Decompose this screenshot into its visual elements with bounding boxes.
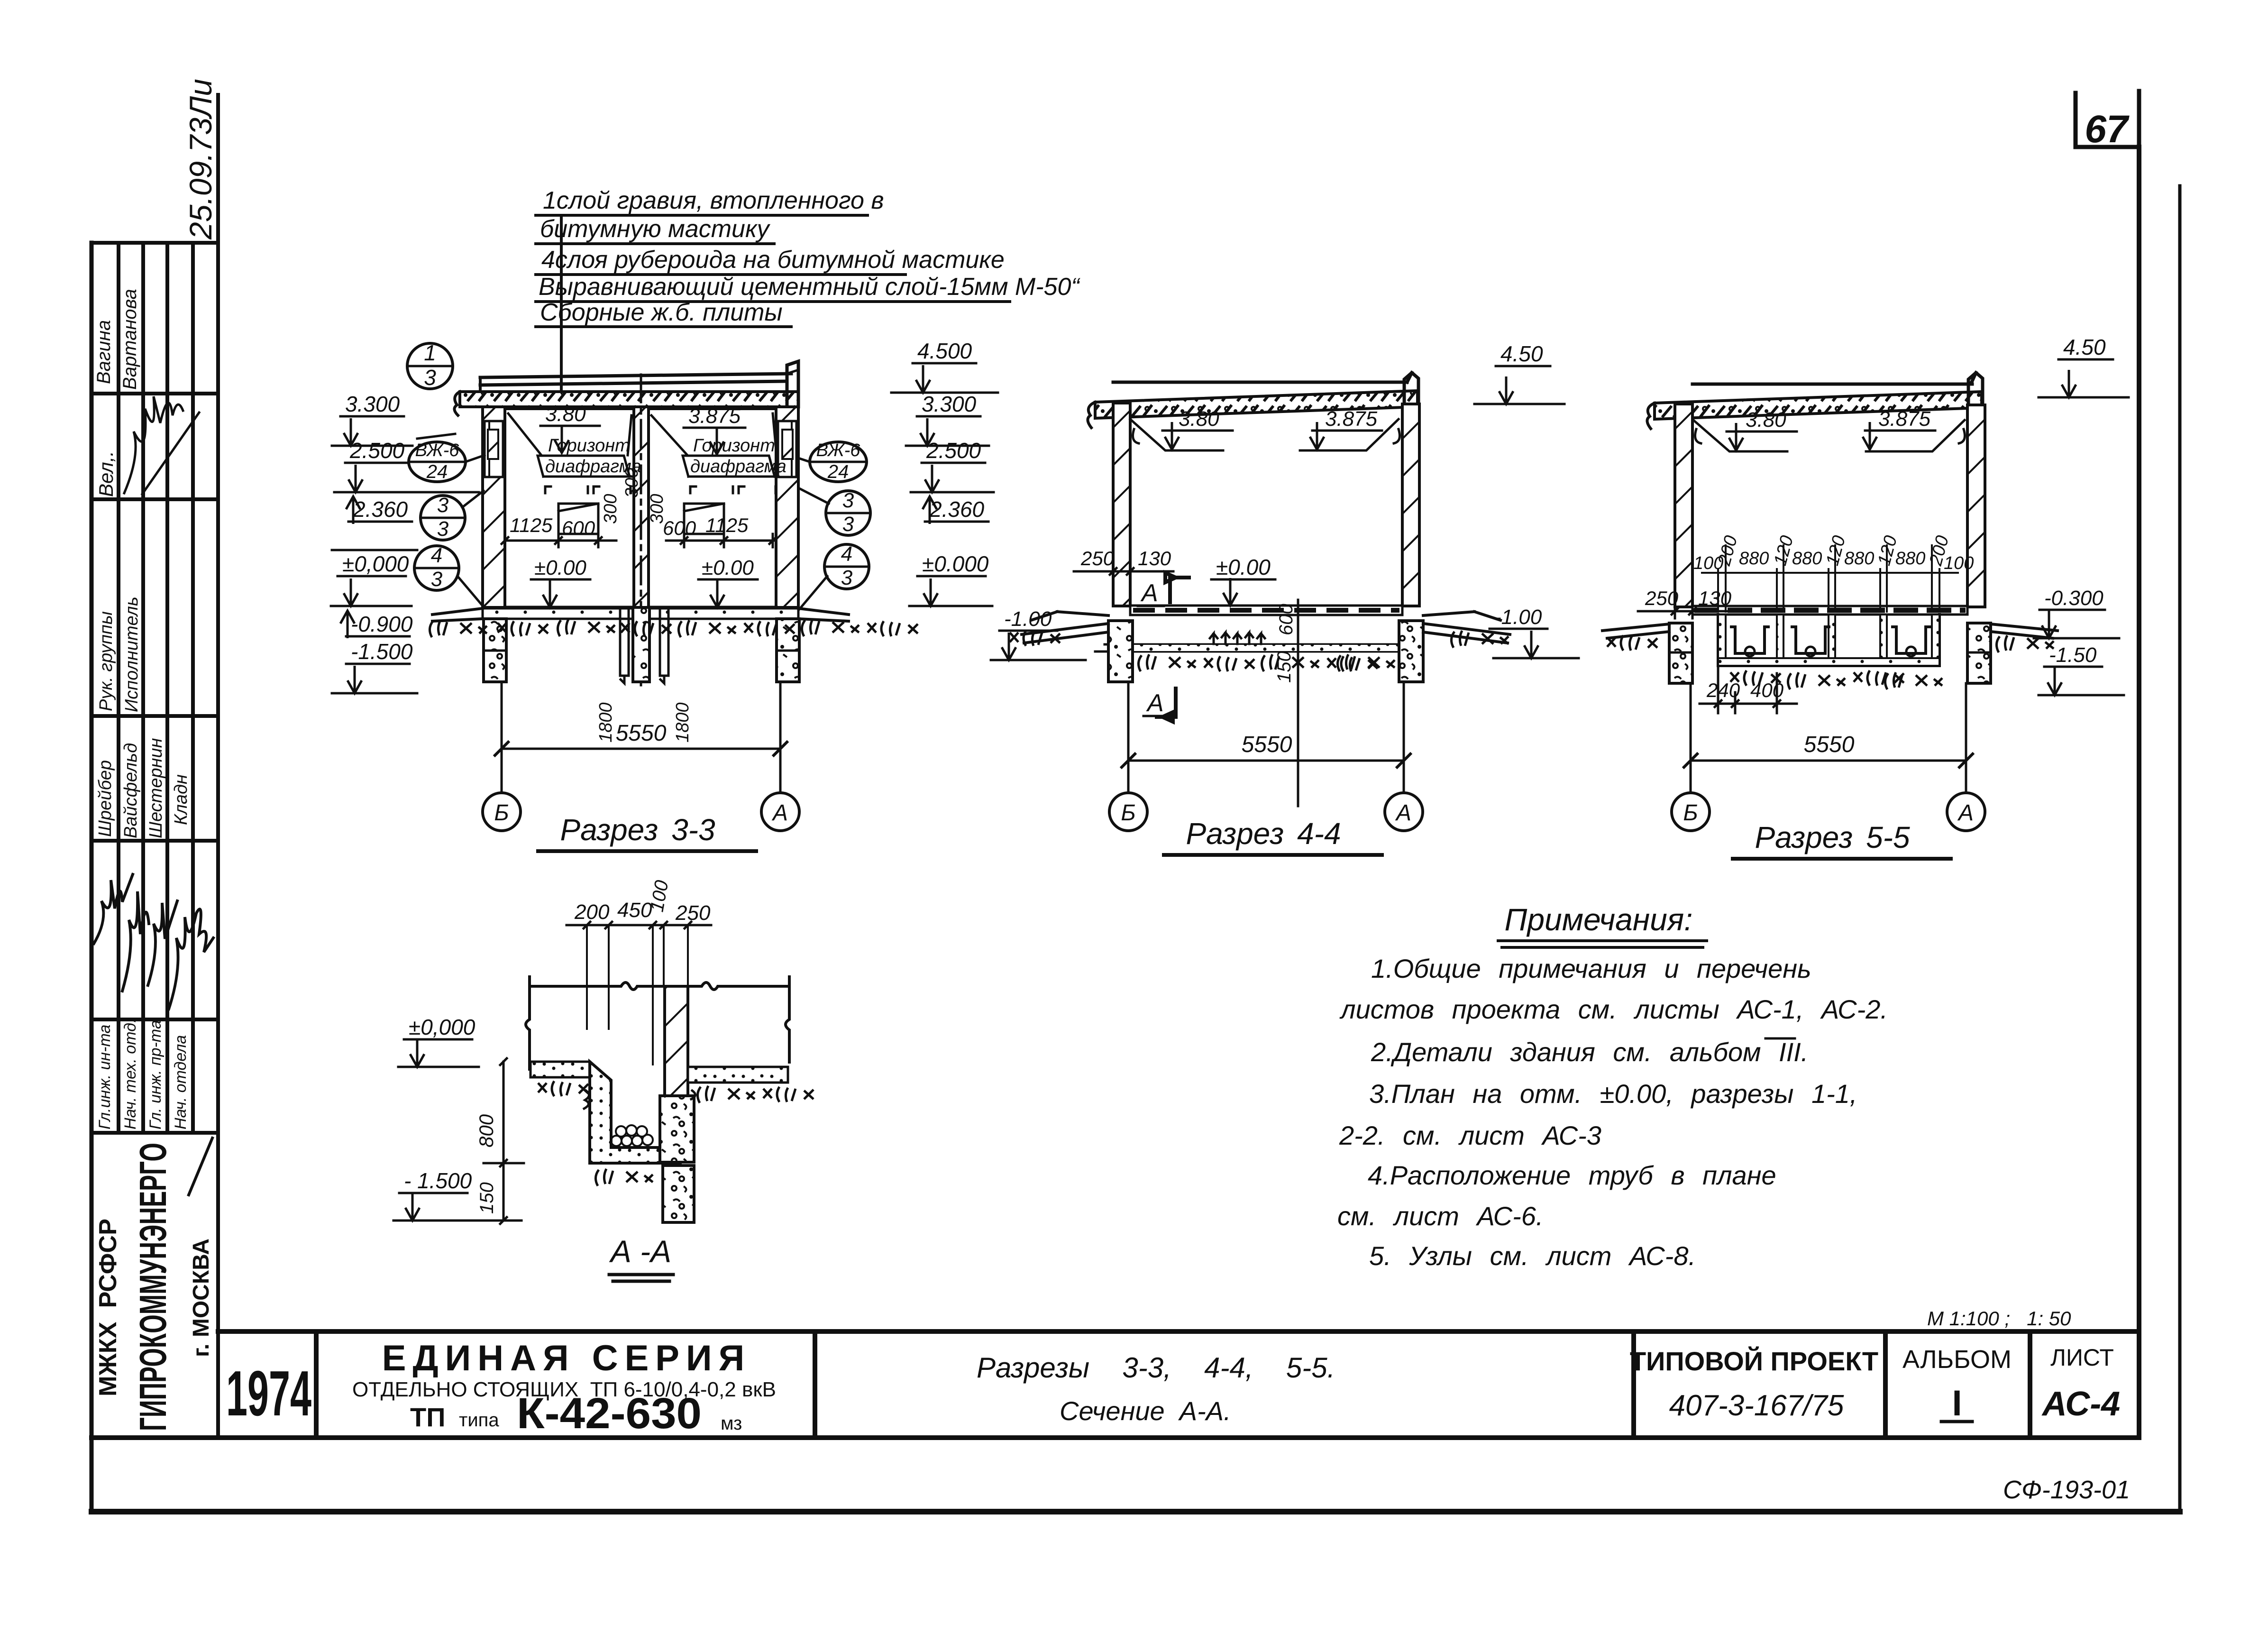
svg-text:4.500: 4.500 <box>917 339 972 363</box>
svg-text:250: 250 <box>1645 587 1679 609</box>
top dims 200 450 100 250 <box>567 879 711 1065</box>
svg-text:2.Детали здания см. альбом III: 2.Детали здания см. альбом III. <box>1371 1037 1808 1067</box>
callout circle 4/3 left <box>414 544 484 607</box>
album III overline <box>1765 1037 1795 1040</box>
svg-text:Разрезы 3-3, 4-4, 5-5.: Разрезы 3-3, 4-4, 5-5. <box>977 1352 1335 1384</box>
svg-text:4.Расположение труб в плане: 4.Расположение труб в плане <box>1368 1160 1776 1190</box>
svg-text:300: 300 <box>647 494 667 524</box>
svg-text:1125: 1125 <box>510 514 553 536</box>
svg-text:3: 3 <box>431 568 443 591</box>
hatched wall A-A <box>665 986 688 1096</box>
svg-text:листов проекта см. листы АС-1,: листов проекта см. листы АС-1, АС-2. <box>1339 994 1888 1024</box>
svg-text:407-3-167/75: 407-3-167/75 <box>1669 1389 1844 1422</box>
ground hatch band <box>430 619 918 637</box>
svg-text:5550: 5550 <box>1242 732 1292 757</box>
left wall hatched <box>1113 403 1130 606</box>
level -1.00 left <box>991 607 1086 660</box>
floor slab band <box>483 608 798 619</box>
svg-text:Шрейбер: Шрейбер <box>95 760 115 837</box>
left footing 5-5 <box>1669 623 1692 683</box>
svg-text:Б: Б <box>1683 800 1698 826</box>
stamp row: signatures scrawls <box>94 874 213 1009</box>
svg-text:±0,000: ±0,000 <box>409 1015 476 1039</box>
svg-text:2-2. см. лист АС-3: 2-2. см. лист АС-3 <box>1339 1120 1601 1150</box>
wall dim 250 130 5-5 <box>1638 587 1732 618</box>
svg-text:4.50: 4.50 <box>1500 341 1543 366</box>
ground hatch band 4-4 <box>1010 631 1509 671</box>
svg-text:880: 880 <box>1844 549 1874 569</box>
svg-text:-1.00: -1.00 <box>1004 607 1052 631</box>
left wall hatched <box>1675 404 1692 607</box>
svg-text:130: 130 <box>1698 587 1732 609</box>
svg-text:150: 150 <box>1274 651 1295 683</box>
svg-text:Б: Б <box>494 800 509 826</box>
svg-text:А: А <box>1395 800 1411 826</box>
roof top line <box>1692 383 1972 386</box>
level 0.000 A-A <box>398 1015 479 1067</box>
svg-text:130: 130 <box>1138 547 1171 569</box>
roof top line <box>480 374 791 385</box>
svg-text:3.80: 3.80 <box>1746 408 1786 431</box>
roof layers underlines and leader <box>536 215 1010 409</box>
interior dims 600 1125 right <box>663 504 776 547</box>
level -1.00 right <box>1490 606 1579 658</box>
svg-text:1: 1 <box>424 340 436 365</box>
roof left drip <box>454 377 480 415</box>
roof layers annotation text <box>539 187 1080 326</box>
roof left drip <box>1647 403 1655 429</box>
svg-text:880: 880 <box>1739 549 1769 569</box>
floor slab right <box>688 1067 788 1083</box>
right footing 5-5 <box>1967 623 1991 683</box>
outside aprons <box>432 608 849 621</box>
ceiling funnel right <box>1866 420 1965 451</box>
level 4.50 top <box>1474 341 1564 404</box>
svg-text:300: 300 <box>601 494 621 524</box>
svg-text:3: 3 <box>437 517 449 541</box>
right levels stack 3-3 <box>891 339 998 606</box>
svg-text:400: 400 <box>1750 679 1784 701</box>
svg-text:4.50: 4.50 <box>2063 335 2106 359</box>
svg-text:Вайсфельд: Вайсфельд <box>121 743 141 838</box>
svg-text:-0.900: -0.900 <box>351 612 413 636</box>
floor slab band 5-5 <box>1692 606 1967 615</box>
svg-text:I: I <box>1952 1383 1962 1423</box>
axis dim 5550 section 3-3 <box>495 682 787 793</box>
svg-text:А: А <box>1957 800 1974 826</box>
left outside ground <box>1602 624 1669 638</box>
inner frame right border <box>2137 147 2141 1438</box>
svg-text:Гл. инж. пр-та: Гл. инж. пр-та <box>146 1020 165 1129</box>
svg-text:3: 3 <box>437 494 449 517</box>
vertical dims 800 150 <box>475 1058 524 1224</box>
svg-text:Кладн: Кладн <box>171 774 191 825</box>
svg-text:ЛИСТ: ЛИСТ <box>2050 1344 2114 1371</box>
svg-text:Гл.инж. ин-та: Гл.инж. ин-та <box>96 1025 114 1129</box>
svg-text:±0.00: ±0.00 <box>1216 555 1271 579</box>
callout circle 1/3 <box>407 340 453 390</box>
svg-text:1974: 1974 <box>226 1358 311 1429</box>
section cut marker A bottom <box>1143 688 1176 722</box>
sheet bottom line <box>91 1509 2180 1514</box>
svg-text:Разрез 3-3: Разрез 3-3 <box>560 813 715 847</box>
detail A-A title <box>609 1234 673 1281</box>
level 0.00 left room <box>531 556 590 607</box>
axis bubble A 4-4 <box>1385 793 1423 831</box>
duct partitions <box>1777 615 1783 658</box>
svg-text:3.875: 3.875 <box>1878 407 1931 431</box>
level 4.50 top 5-5 <box>2039 335 2129 397</box>
callout VZh-6/24 left <box>409 441 485 482</box>
svg-text:Нач. тех. отд.: Нач. тех. отд. <box>121 1019 139 1129</box>
right wall panel VZh <box>778 421 796 477</box>
ceiling funnel right <box>1300 419 1399 450</box>
svg-text:Горизонт: Горизонт <box>548 436 630 456</box>
svg-text:250: 250 <box>675 901 711 925</box>
svg-text:Нач. отдела: Нач. отдела <box>172 1035 190 1129</box>
roof slab band sloped <box>1655 392 1982 419</box>
svg-text:5550: 5550 <box>616 721 667 746</box>
left levels stack 3-3 <box>331 392 479 693</box>
axis bubble A 5-5 <box>1947 793 1985 831</box>
level 3.80 left room <box>508 403 631 455</box>
trench dims 240 400 <box>1700 666 1797 713</box>
svg-text:3.80: 3.80 <box>545 403 586 426</box>
svg-text:Б: Б <box>1121 800 1135 826</box>
gravel circles <box>611 1125 653 1146</box>
svg-text:типа: типа <box>459 1410 499 1431</box>
right outside ground <box>1991 624 2058 638</box>
svg-text:3: 3 <box>842 489 854 512</box>
right parapet <box>1404 373 1418 407</box>
title block outline <box>91 1331 2139 1438</box>
svg-text:2.500: 2.500 <box>349 438 405 463</box>
svg-text:А: А <box>1140 579 1158 607</box>
section 3-3 drawing <box>430 361 918 685</box>
section 3-3 title <box>538 813 756 851</box>
stamp stray slash <box>189 1138 212 1195</box>
ceiling funnel left <box>1693 420 1787 451</box>
floor line <box>505 606 776 609</box>
svg-text:800: 800 <box>475 1114 497 1147</box>
svg-text:- 1.500: - 1.500 <box>404 1168 472 1193</box>
roof slab band <box>460 392 798 407</box>
svg-text:600: 600 <box>562 517 595 539</box>
svg-text:±0.00: ±0.00 <box>534 556 586 579</box>
trench walls texture <box>1718 615 1726 666</box>
notes text <box>1337 954 1888 1271</box>
roof slab band sloped <box>1095 391 1417 418</box>
svg-text:200: 200 <box>574 900 610 924</box>
axis dim 5550 section 4-4 <box>1122 682 1410 793</box>
left wall hatched <box>483 407 505 607</box>
svg-text:2.500: 2.500 <box>926 438 981 463</box>
duct left wall <box>590 1062 680 1163</box>
svg-text:1800: 1800 <box>673 702 693 743</box>
svg-text:Исполнитель: Исполнитель <box>122 597 142 712</box>
central footing <box>633 607 649 682</box>
svg-text:ЕДИНАЯ СЕРИЯ: ЕДИНАЯ СЕРИЯ <box>382 1338 751 1378</box>
left ramp <box>1022 612 1108 643</box>
svg-text:3.План на отм. ±0.00, разрезы: 3.План на отм. ±0.00, разрезы 1-1, <box>1369 1079 1857 1109</box>
svg-text:Вел,.: Вел,. <box>95 451 117 497</box>
svg-text:3.80: 3.80 <box>1179 407 1219 431</box>
svg-text:3.875: 3.875 <box>1325 407 1378 431</box>
svg-text:67: 67 <box>2085 108 2130 151</box>
svg-text:150: 150 <box>476 1182 497 1214</box>
svg-text:25.09.73Ли: 25.09.73Ли <box>183 79 218 240</box>
svg-text:ТИПОВОЙ ПРОЕКТ: ТИПОВОЙ ПРОЕКТ <box>1630 1346 1878 1376</box>
svg-text:Рук. группы: Рук. группы <box>96 611 116 711</box>
ceiling funnel left <box>1130 419 1223 450</box>
svg-text:г. МОСКВА: г. МОСКВА <box>189 1239 214 1357</box>
duct channel U 4 <box>1893 627 1930 653</box>
section 5-5 drawing <box>1602 335 2129 859</box>
wall top hooks <box>1133 429 1400 443</box>
axis bubble A <box>761 793 799 831</box>
svg-text:-1.50: -1.50 <box>2049 643 2097 667</box>
central wall axis dash-dot <box>640 375 642 685</box>
underfloor ground slab <box>1095 644 1402 652</box>
svg-text:4: 4 <box>431 544 442 567</box>
interior dims 1125 600 left <box>502 504 616 547</box>
level -1.500 A-A <box>393 1168 521 1221</box>
svg-text:3.875: 3.875 <box>688 404 741 428</box>
svg-text:3: 3 <box>424 365 436 390</box>
level -0.300 <box>2034 587 2119 638</box>
callout circle 4/3 right <box>799 542 869 609</box>
roof top line <box>1113 381 1407 384</box>
svg-text:Горизонт.: Горизонт. <box>693 436 780 456</box>
svg-text:±0,000: ±0,000 <box>342 551 409 576</box>
svg-text:см. лист АС-6.: см. лист АС-6. <box>1337 1201 1543 1231</box>
detail A-A drawing <box>393 879 814 1281</box>
level 0.00 right room <box>698 556 758 607</box>
right footing <box>1399 621 1423 682</box>
svg-text:24: 24 <box>827 461 849 482</box>
duct dim extension lines <box>1702 545 1958 612</box>
svg-text:300: 300 <box>622 468 642 498</box>
section cut marker A top <box>1138 573 1189 607</box>
svg-text:±0.000: ±0.000 <box>922 551 989 576</box>
central wall hatched <box>634 407 649 607</box>
axis bubble B <box>483 793 521 831</box>
level -1.50 <box>2039 643 2124 695</box>
right wall hatched <box>776 407 798 607</box>
svg-text:3: 3 <box>841 566 853 589</box>
stamp row lines <box>91 243 218 1438</box>
svg-text:5. Узлы см. лист АС-8.: 5. Узлы см. лист АС-8. <box>1369 1241 1696 1271</box>
svg-text:СФ-193-01: СФ-193-01 <box>2003 1476 2130 1504</box>
svg-text:±0.00: ±0.00 <box>702 556 754 579</box>
right ramp <box>1423 612 1510 643</box>
wall above floor broken outline <box>530 982 789 990</box>
floor slab left <box>530 1062 590 1077</box>
svg-text:ТП: ТП <box>410 1402 445 1432</box>
right parapet <box>787 361 798 407</box>
cable trench outer <box>1718 615 1939 666</box>
pit right of wall <box>660 607 668 683</box>
svg-text:ВЖ-6: ВЖ-6 <box>415 441 460 460</box>
grass tufts <box>1210 633 1265 644</box>
right parapet <box>1968 373 1983 408</box>
callout VZh-6/24 right <box>798 441 867 482</box>
svg-text:Разрез 5-5: Разрез 5-5 <box>1755 820 1910 854</box>
svg-text:ВЖ-6: ВЖ-6 <box>816 441 861 460</box>
svg-text:600: 600 <box>1276 604 1297 635</box>
section 4-4 title <box>1164 817 1382 855</box>
svg-text:-0.300: -0.300 <box>2044 587 2103 610</box>
ground hatch around duct <box>538 1081 814 1186</box>
svg-text:3.300: 3.300 <box>345 392 400 416</box>
callout circle 3/3 right <box>799 488 870 536</box>
axis bubble B 5-5 <box>1672 793 1710 831</box>
svg-text:А: А <box>771 800 788 826</box>
roof left drip <box>1088 402 1095 428</box>
svg-text:1800: 1800 <box>596 702 616 743</box>
svg-text:1.Общие примечания и перечень: 1.Общие примечания и перечень <box>1371 954 1811 983</box>
level 3.875 right room <box>651 404 777 455</box>
svg-text:МЖКХ РСФСР: МЖКХ РСФСР <box>94 1219 122 1396</box>
svg-text:-1.00: -1.00 <box>1494 606 1542 629</box>
svg-text:мз: мз <box>721 1413 742 1434</box>
floor slab band <box>1130 606 1402 615</box>
stamp column lines <box>119 95 218 1438</box>
svg-text:Шестернин: Шестернин <box>146 738 166 838</box>
notes title <box>1498 902 1707 947</box>
axis dim 5550 section 5-5 <box>1684 683 1973 793</box>
svg-text:Разрез 4-4: Разрез 4-4 <box>1186 817 1341 851</box>
svg-text:Выравнивающий цементный слой-1: Выравнивающий цементный слой-15мм М-50“ <box>539 273 1080 301</box>
svg-text:М 1:100 ; 1: 50: М 1:100 ; 1: 50 <box>1927 1307 2071 1330</box>
right wall hatched <box>1967 405 1985 607</box>
ceiling line <box>505 407 776 410</box>
section 5-5 title <box>1733 820 1951 859</box>
svg-text:880: 880 <box>1792 549 1822 569</box>
svg-text:2.360: 2.360 <box>353 497 408 522</box>
svg-text:АС-4: АС-4 <box>2041 1385 2120 1423</box>
wall top hooks <box>1695 429 1965 443</box>
svg-text:880: 880 <box>1895 549 1925 569</box>
svg-text:4: 4 <box>841 542 852 566</box>
outer sheet right edge <box>2178 186 2182 1512</box>
left wall panel VZh <box>485 421 503 477</box>
svg-text:А -А: А -А <box>609 1234 671 1269</box>
right wall hatched <box>1402 404 1419 606</box>
pit left of wall <box>620 607 629 683</box>
svg-text:АЛЬБОМ: АЛЬБОМ <box>1902 1345 2012 1374</box>
svg-text:Сечение А-А.: Сечение А-А. <box>1060 1396 1231 1426</box>
stamp left border <box>90 243 94 1512</box>
axis bubble B 4-4 <box>1109 793 1147 831</box>
level 0.00 <box>1211 555 1275 606</box>
svg-text:3: 3 <box>842 513 854 536</box>
right footing <box>777 619 799 682</box>
svg-text:600: 600 <box>663 517 696 539</box>
sheet number box 67 <box>2076 91 2139 151</box>
foundation column <box>660 1096 694 1162</box>
gorizont diafragma right <box>683 436 786 493</box>
svg-text:3.300: 3.300 <box>922 392 977 416</box>
svg-text:24: 24 <box>426 461 448 482</box>
svg-text:2.360: 2.360 <box>929 497 985 522</box>
svg-text:битумную мастику: битумную мастику <box>540 215 771 243</box>
svg-text:4слоя рубероида на битумной ма: 4слоя рубероида на битумной мастике <box>541 246 1005 274</box>
left footing <box>484 619 506 682</box>
duct channel U 2 <box>1792 627 1829 653</box>
svg-text:А: А <box>1146 689 1164 717</box>
svg-text:К-42-630: К-42-630 <box>517 1389 702 1438</box>
ground hatch band 5-5 <box>1607 635 2054 689</box>
svg-text:5550: 5550 <box>1804 732 1855 757</box>
left footing <box>1108 621 1133 682</box>
callout circle 3/3 left <box>421 491 484 541</box>
section 4-4 drawing <box>991 341 1579 855</box>
gorizont diafragma left <box>538 436 641 493</box>
svg-text:Примечания:: Примечания: <box>1505 902 1693 937</box>
duct dims texts <box>1693 533 1974 573</box>
svg-text:Вагина: Вагина <box>93 320 114 384</box>
svg-text:250: 250 <box>1080 547 1115 569</box>
svg-text:ГИПРОКОММУНЭНЕРГО: ГИПРОКОММУНЭНЕРГО <box>132 1143 174 1431</box>
svg-text:-1.500: -1.500 <box>351 639 413 664</box>
svg-text:1слой гравия, втопленного в: 1слой гравия, втопленного в <box>543 187 884 214</box>
duct channel U 1 <box>1731 627 1768 653</box>
svg-text:100: 100 <box>1944 553 1974 573</box>
svg-text:Вартанова: Вартанова <box>119 289 140 390</box>
wall dim 250 130 <box>1074 547 1173 578</box>
